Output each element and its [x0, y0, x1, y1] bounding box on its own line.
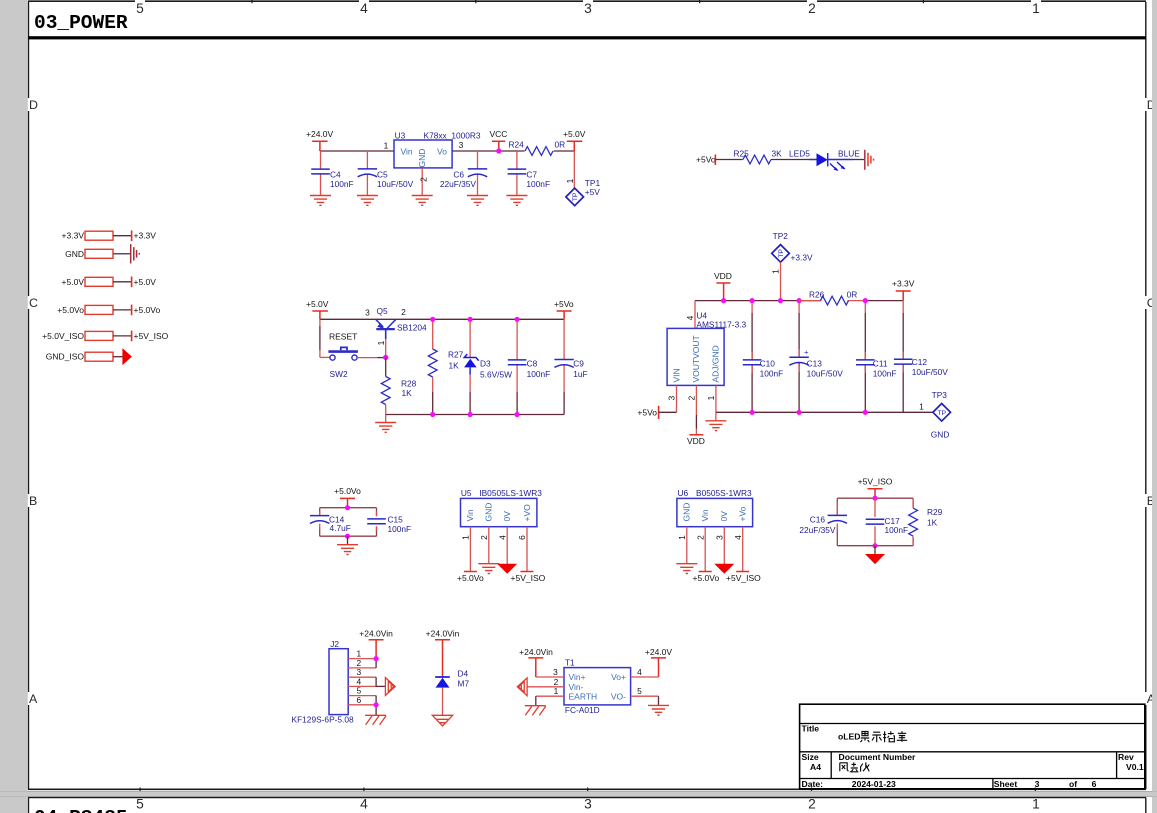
svg-text:2: 2 [687, 395, 697, 400]
junction nodes R27 [430, 317, 435, 322]
svg-text:10uF/50V: 10uF/50V [807, 369, 844, 379]
svg-text:AMS1117-3.3: AMS1117-3.3 [696, 320, 746, 330]
svg-text:SW2: SW2 [330, 369, 348, 379]
pin 2 lead to +5.0Vo [704, 527, 706, 572]
svg-text:+24.0Vin: +24.0Vin [426, 629, 460, 639]
svg-text:0V: 0V [502, 511, 512, 522]
svg-text:Vin+: Vin+ [569, 672, 586, 682]
svg-text:LED5: LED5 [789, 149, 810, 159]
pin 1 lead to ground [686, 527, 688, 564]
wire left branch down to SW2 [319, 319, 321, 326]
svg-text:RESET: RESET [329, 332, 357, 342]
bottom border line [28, 788, 1146, 790]
svg-text:+5.0Vo: +5.0Vo [457, 573, 484, 583]
wire to shield arrow [376, 685, 385, 687]
svg-text:1: 1 [919, 402, 924, 412]
right border line [1145, 2, 1147, 789]
svg-text:GND_ISO: GND_ISO [46, 352, 85, 362]
capacitor C6 (polarized) [477, 151, 479, 169]
svg-text:0R: 0R [847, 290, 858, 300]
svg-text:TP2: TP2 [773, 231, 789, 241]
svg-text:VDD: VDD [687, 436, 705, 446]
junction VDD [721, 298, 726, 303]
test point TP1 [573, 151, 575, 188]
svg-text:1uF: 1uF [573, 369, 587, 379]
svg-text:Vo: Vo [437, 147, 447, 157]
resistor R28 1K [385, 357, 387, 376]
svg-text:A4: A4 [810, 762, 821, 772]
svg-text:C11: C11 [873, 358, 888, 368]
ISO ground under loop [874, 546, 876, 555]
svg-text:100nF: 100nF [873, 369, 897, 379]
junction nodes C8 [515, 317, 520, 322]
svg-text:100nF: 100nF [527, 369, 551, 379]
column number 2 [807, 0, 817, 14]
pin1 of Q5 [385, 339, 387, 357]
svg-text:Vo+: Vo+ [611, 672, 626, 682]
shield arrow left [517, 678, 527, 696]
svg-text:U3: U3 [395, 130, 406, 140]
svg-text:J2: J2 [330, 639, 339, 649]
svg-text:2: 2 [808, 1, 816, 16]
svg-text:VO-: VO- [611, 692, 626, 702]
svg-text:of: of [1069, 779, 1077, 789]
svg-text:5.6V/5W: 5.6V/5W [480, 370, 512, 380]
svg-text:1: 1 [771, 269, 781, 274]
wire pin5 down [658, 696, 660, 705]
svg-text:TP: TP [572, 192, 579, 201]
svg-text:+24.0V: +24.0V [306, 129, 334, 139]
svg-text:EARTH: EARTH [569, 692, 598, 702]
row letter A right [1144, 692, 1150, 705]
svg-text:1: 1 [706, 395, 716, 400]
ground under loop [347, 536, 349, 545]
svg-text:+Vo: +Vo [738, 506, 748, 521]
pin 2 lead + number [421, 168, 423, 196]
svg-text:+5.0Vo: +5.0Vo [693, 573, 720, 583]
svg-text:A: A [29, 692, 38, 706]
svg-text:C13: C13 [807, 358, 823, 368]
svg-text:10uF/50V: 10uF/50V [377, 179, 414, 189]
svg-text:Vin: Vin [401, 147, 413, 157]
svg-text:R27: R27 [448, 350, 464, 360]
junction node SW2/Q5/R28 [383, 355, 388, 360]
svg-text:Vin-: Vin- [569, 682, 584, 692]
svg-text:B: B [29, 494, 37, 508]
title underline thick rule [28, 36, 1146, 39]
svg-text:3: 3 [714, 535, 724, 540]
wire R25 to LED5 [771, 159, 817, 161]
svg-text:3K: 3K [772, 149, 783, 159]
svg-text:D: D [29, 98, 38, 112]
gray gap strip [0, 791, 1157, 796]
svg-text:22uF/35V: 22uF/35V [799, 525, 836, 535]
CJK 风速仪 (drawn) [840, 762, 869, 771]
svg-text:+5.0Vo: +5.0Vo [334, 486, 361, 496]
svg-text:Rev: Rev [1118, 752, 1134, 762]
svg-text:TP: TP [778, 249, 785, 258]
svg-text:+5V_ISO: +5V_ISO [726, 573, 761, 583]
wire LED to ground [853, 159, 865, 161]
diode D4 M7 [435, 676, 450, 678]
row letter A left [26, 692, 32, 705]
ground under pin1 [715, 412, 717, 421]
svg-text:+5V_ISO: +5V_ISO [511, 573, 546, 583]
svg-text:5: 5 [136, 797, 144, 812]
svg-text:+24.0Vin: +24.0Vin [359, 629, 393, 639]
ground under C5 [357, 196, 378, 206]
capacitor C11 100nF [864, 301, 866, 313]
pin 2 [348, 667, 376, 669]
column ticks top [252, 0, 923, 3]
svg-text:3: 3 [584, 797, 592, 812]
capacitor C15 100nF [367, 519, 386, 524]
op box U3 K78xx_1000R3 [394, 140, 452, 168]
pin 1 lead to +5.0Vo [469, 527, 471, 572]
junction nodes D3 [468, 317, 473, 322]
svg-text:ADJ/GND: ADJ/GND [711, 345, 721, 382]
pin 4 lead to ISO ground [506, 527, 508, 565]
pin 3 lead to ISO ground [723, 527, 725, 565]
svg-text:+5.0Vo: +5.0Vo [134, 305, 161, 315]
wire top 3.3V rail [695, 300, 822, 302]
svg-text:4: 4 [360, 797, 368, 812]
svg-text:IB0505LS-1WR3: IB0505LS-1WR3 [479, 488, 542, 498]
svg-text:1K: 1K [402, 388, 413, 398]
svg-text:Q5: Q5 [377, 306, 388, 316]
resistor R26 0R [799, 300, 821, 302]
bottom ticks at column centers [140, 788, 1035, 795]
svg-text:0V: 0V [719, 511, 729, 522]
svg-text:T1: T1 [565, 658, 575, 668]
svg-text:GND: GND [417, 149, 427, 168]
svg-text:B0505S-1WR3: B0505S-1WR3 [696, 488, 752, 498]
ground (rotated right) [864, 150, 866, 170]
shield arrow right [385, 678, 395, 696]
capacitor C16 22uF/35V (polarized) [837, 498, 913, 546]
svg-text:C10: C10 [760, 358, 776, 368]
capacitor C17 100nF [874, 498, 876, 517]
resistor R29 1K [909, 508, 918, 536]
svg-text:4: 4 [685, 315, 695, 320]
wire top rail [320, 318, 564, 320]
svg-text:GND: GND [484, 503, 494, 522]
svg-text:VDD: VDD [714, 271, 732, 281]
row letter C right [1144, 296, 1150, 309]
svg-text:+5.0V: +5.0V [306, 299, 329, 309]
svg-text:Sheet: Sheet [994, 779, 1018, 789]
svg-text:TP: TP [937, 410, 946, 417]
svg-text:+5V_ISO: +5V_ISO [134, 331, 169, 341]
pin 5 [631, 695, 659, 697]
pin 1 [536, 695, 564, 697]
box U4 AMS1117-3.3 [667, 328, 724, 385]
capacitor C7 [516, 151, 518, 169]
wire: after R24 to +5.0V corner [554, 150, 575, 152]
svg-text:R26: R26 [809, 290, 825, 300]
svg-text:V0.1: V0.1 [1126, 762, 1144, 772]
svg-text:10uF/50V: 10uF/50V [912, 367, 949, 377]
svg-text:1: 1 [565, 178, 575, 183]
svg-text:2: 2 [479, 535, 489, 540]
ground under bottom rail [385, 415, 387, 423]
left border line [28, 2, 30, 789]
svg-text:0R: 0R [555, 140, 566, 150]
svg-text:TP3: TP3 [932, 390, 948, 400]
pin 6 [348, 704, 376, 706]
left gray margin [0, 0, 28, 791]
svg-text:3: 3 [365, 308, 370, 318]
box T1 FC-A01D [564, 668, 631, 705]
svg-text:4: 4 [360, 1, 368, 16]
junction pin1 [374, 656, 379, 661]
pin 5 [348, 695, 376, 697]
svg-text:+5.0V: +5.0V [62, 277, 85, 287]
junction bottom [345, 534, 350, 539]
svg-text:6: 6 [1092, 779, 1097, 789]
svg-text:22uF/35V: 22uF/35V [440, 179, 477, 189]
svg-text:D3: D3 [480, 359, 491, 369]
svg-text:D4: D4 [458, 669, 469, 679]
svg-text:4.7uF: 4.7uF [330, 523, 351, 533]
svg-text:C: C [29, 296, 38, 310]
pin 1 [348, 658, 376, 660]
svg-text:GND: GND [931, 430, 950, 440]
wire: Vo output rail [452, 150, 524, 152]
svg-text:R29: R29 [927, 507, 943, 517]
svg-text:1: 1 [1032, 1, 1040, 16]
wire +5Vo to R25 [715, 159, 742, 161]
svg-text:U5: U5 [461, 488, 472, 498]
wire pin1 down [535, 696, 537, 706]
svg-text:+5V: +5V [585, 187, 601, 197]
junction VCC node [496, 148, 501, 153]
svg-text:5: 5 [637, 686, 642, 696]
pin 4 [348, 685, 376, 687]
capacitor C12 10uF/50V [902, 301, 904, 313]
svg-text:GND: GND [682, 503, 692, 522]
connector J2 KF129S-6P-5.08 [329, 649, 348, 715]
resistor R24 [525, 147, 553, 156]
pin 4 [631, 676, 659, 678]
capacitor C9 1uF (polarized) [563, 319, 565, 359]
svg-text:2: 2 [808, 797, 816, 812]
svg-text:R24: R24 [509, 140, 525, 150]
svg-text:Title: Title [802, 724, 820, 734]
svg-text:+5Vo: +5Vo [637, 407, 657, 417]
row letter B right [1144, 494, 1150, 507]
svg-text:Document Number: Document Number [839, 752, 917, 762]
page 04 top border [28, 797, 1146, 799]
svg-text:100nF: 100nF [526, 179, 550, 189]
svg-text:+5Vo: +5Vo [696, 155, 716, 165]
svg-text:FC-A01D: FC-A01D [565, 705, 600, 715]
svg-text:5: 5 [136, 1, 144, 16]
wire SW2 to junction [357, 357, 377, 359]
pin 3 lead [676, 385, 678, 412]
wire loop [837, 498, 913, 546]
wire bottom rail [716, 411, 933, 413]
column number 3 [583, 0, 593, 14]
svg-text:K78xx_1000R3: K78xx_1000R3 [424, 130, 481, 140]
svg-text:VIN: VIN [671, 368, 681, 382]
svg-text:3: 3 [459, 140, 464, 150]
svg-text:VCC: VCC [490, 129, 508, 139]
svg-text:+3.3V: +3.3V [892, 279, 915, 289]
junction TP2 [778, 298, 783, 303]
column number 5 [135, 0, 145, 14]
svg-text:4: 4 [637, 667, 642, 677]
capacitor C8 100nF [516, 319, 518, 360]
svg-text:2: 2 [419, 177, 429, 182]
top border line [28, 0, 1146, 2]
svg-text:KF129S-6P-5.08: KF129S-6P-5.08 [292, 715, 355, 725]
svg-text:C12: C12 [912, 357, 928, 367]
CJK 显示模组 (drawn) [860, 731, 907, 742]
svg-text:3: 3 [1035, 779, 1040, 789]
svg-text:3: 3 [553, 667, 558, 677]
pin 3 [348, 676, 376, 678]
box U6 B0505S-1WR3 [677, 498, 753, 526]
ground under C6 [467, 196, 488, 206]
svg-text:1K: 1K [927, 518, 938, 528]
junction bottom [872, 543, 877, 548]
svg-text:+24.0V: +24.0V [645, 647, 673, 657]
svg-text:+5.0V_ISO: +5.0V_ISO [42, 331, 84, 341]
svg-text:VOUTVOUT: VOUTVOUT [691, 335, 701, 382]
chassis ground under J2 [365, 715, 386, 725]
column number 4 [359, 0, 369, 14]
svg-text:4: 4 [497, 535, 507, 540]
right gray margin [1152, 0, 1157, 791]
junction top [345, 505, 350, 510]
svg-text:+24.0Vin: +24.0Vin [519, 647, 553, 657]
ground under C7 [506, 196, 527, 206]
svg-text:100nF: 100nF [760, 369, 784, 379]
svg-text:6: 6 [357, 695, 362, 705]
pin 3 [536, 676, 564, 678]
svg-text:1: 1 [1032, 797, 1040, 812]
svg-text:C8: C8 [527, 359, 538, 369]
svg-text:+: + [804, 348, 809, 357]
pin 2 lead to ground [488, 527, 490, 564]
junction top [872, 496, 877, 501]
wire pins 1-2 tie [375, 659, 377, 668]
svg-text:R25: R25 [734, 149, 750, 159]
svg-text:+5V_ISO: +5V_ISO [858, 477, 893, 487]
capacitor C4 [320, 151, 322, 169]
ground under pin5 [648, 705, 669, 715]
svg-text:03_POWER: 03_POWER [34, 12, 128, 34]
svg-text:SB1204: SB1204 [397, 323, 427, 333]
wire pins 3-4 tie [375, 677, 377, 686]
pin 2 lead to VDD down [695, 385, 697, 415]
row letter C left [26, 296, 32, 309]
svg-text:C16: C16 [810, 514, 826, 524]
wire pins 5-6 tie [375, 696, 377, 716]
wire pin4 riser [694, 301, 696, 329]
svg-text:1K: 1K [449, 361, 460, 371]
svg-text:GND: GND [65, 249, 84, 259]
svg-text:2024-01-23: 2024-01-23 [852, 779, 896, 789]
row letter D left [26, 98, 32, 111]
svg-text:1: 1 [461, 535, 471, 540]
capacitor C10 100nF [751, 301, 753, 313]
svg-text:2: 2 [401, 307, 406, 317]
svg-text:Vin: Vin [700, 509, 710, 521]
earth ground under D4 [432, 715, 452, 726]
svg-text:oLED: oLED [838, 732, 860, 742]
svg-text:6: 6 [517, 535, 527, 540]
svg-text:1: 1 [384, 141, 389, 151]
svg-text:100nF: 100nF [885, 525, 909, 535]
chassis ground under T1 [525, 706, 546, 716]
svg-text:M7: M7 [458, 679, 470, 689]
pin 2 [527, 686, 564, 688]
wire: main +24V to Vin rail [320, 150, 394, 152]
pin 1 lead [715, 385, 717, 412]
column number 1 [1031, 0, 1041, 14]
svg-text:+5.0Vo: +5.0Vo [57, 305, 84, 315]
row letter D right [1144, 98, 1150, 111]
junction pin6 [374, 702, 379, 707]
zener diode D3 5.6V/5W [469, 319, 471, 357]
svg-text:1: 1 [677, 535, 687, 540]
svg-text:U6: U6 [678, 488, 689, 498]
power VDD (down) [689, 434, 703, 436]
ground under C4 [310, 196, 331, 206]
svg-text:100nF: 100nF [330, 179, 354, 189]
pin 6 lead to +5V_ISO [526, 527, 528, 572]
resistor R27 1K [432, 319, 434, 349]
svg-text:C9: C9 [573, 359, 584, 369]
resistor R25 3K [743, 155, 771, 164]
ground under U3 pin2 [412, 196, 433, 206]
svg-text:+5.0V: +5.0V [134, 277, 157, 287]
svg-text:Date:: Date: [802, 779, 824, 789]
wire bottom rail [386, 414, 564, 416]
svg-text:+3.3V: +3.3V [62, 231, 85, 241]
capacitor C14 4.7uF (polarized) [320, 512, 377, 531]
row letter B left [26, 494, 32, 507]
svg-text:+VO: +VO [522, 504, 532, 522]
wire loop [320, 508, 377, 537]
capacitor C5 (polarized) [366, 151, 368, 169]
svg-text:+5Vo: +5Vo [554, 299, 574, 309]
svg-text:2: 2 [695, 535, 705, 540]
svg-text:Size: Size [802, 752, 819, 762]
svg-text:Vin: Vin [465, 509, 475, 521]
pin 4 lead to +5V_ISO [742, 527, 744, 572]
svg-text:1: 1 [376, 340, 386, 345]
capacitor C13 10uF/50V (polarized +) [798, 301, 800, 313]
svg-text:3: 3 [584, 1, 592, 16]
svg-text:04_RS485: 04_RS485 [34, 807, 128, 813]
box U5 IB0505LS-1WR3 [461, 498, 537, 526]
svg-text:1: 1 [554, 686, 559, 696]
svg-text:4: 4 [733, 535, 743, 540]
wire D4 to earth [442, 688, 444, 716]
svg-text:+3.3V: +3.3V [134, 231, 157, 241]
svg-text:3: 3 [667, 395, 677, 400]
svg-text:+3.3V: +3.3V [791, 253, 813, 263]
svg-text:+5.0V: +5.0V [563, 129, 586, 139]
svg-text:100nF: 100nF [388, 524, 412, 534]
svg-text:BLUE: BLUE [838, 149, 860, 159]
